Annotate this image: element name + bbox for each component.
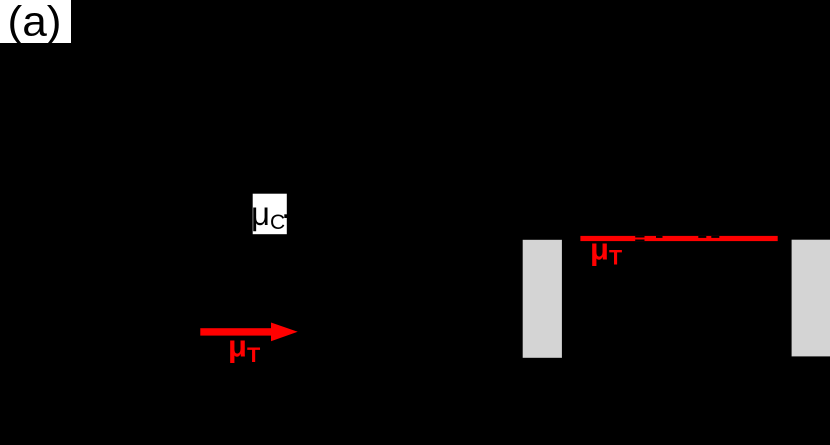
red level line mu_T — [580, 236, 777, 241]
red arrow mu_T (tunneling moment direction) — [200, 323, 297, 342]
label mu_C on white box — [251, 194, 287, 235]
right electrode — [792, 240, 830, 357]
panel label (a) — [0, 0, 71, 45]
left electrode — [523, 240, 562, 358]
svg-text:(a): (a) — [8, 0, 62, 45]
black arrow stub at right edge of mu_C box — [284, 214, 289, 218]
notches on level line (black overlaps) — [635, 236, 719, 241]
